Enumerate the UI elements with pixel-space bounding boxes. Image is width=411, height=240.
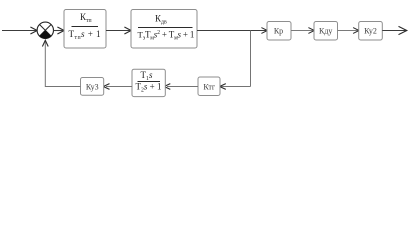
wire Ku3 to summer (left + up) (45, 41, 80, 87)
summing junction (37, 22, 53, 38)
block Ku2 (359, 22, 383, 41)
wire input (2, 30, 36, 32)
svg-text:Ку3: Ку3 (86, 82, 99, 91)
block Kdu (314, 22, 338, 41)
wire feedback tap vertical (250, 31, 252, 87)
svg-text:Ктг: Ктг (203, 82, 216, 91)
wire Kdu to Ku2 (338, 30, 358, 32)
wire Kp to Kdu (291, 30, 313, 32)
block T1s/T2s+1 (132, 69, 165, 96)
block motor (131, 10, 197, 49)
wire output (382, 30, 405, 32)
wire tap to Ktg (221, 86, 251, 88)
svg-text:Кр: Кр (274, 26, 283, 35)
block Kp (267, 22, 291, 41)
wire block2 to Kp with feedback tap (197, 30, 266, 32)
wire Ktg to T1 block (167, 86, 198, 88)
wire summer to block1 (53, 30, 62, 32)
block thyristor converter (64, 10, 106, 49)
svg-text:Кду: Кду (319, 26, 332, 35)
wire T1 block to Ku3 (106, 86, 132, 88)
svg-text:Ку2: Ку2 (364, 26, 377, 35)
wire block1 to block2 (106, 30, 130, 32)
block Ku3 (81, 78, 104, 96)
block Ktg (198, 77, 220, 96)
